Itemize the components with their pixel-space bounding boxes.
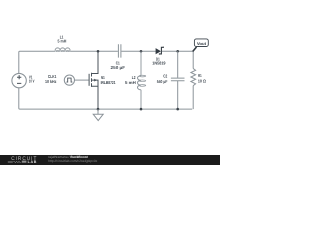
label C2	[157, 73, 168, 84]
label L1	[58, 35, 67, 44]
label V1	[29, 75, 35, 84]
footer bar	[0, 155, 220, 165]
transistor M1	[89, 51, 98, 109]
svg-text:540 µF: 540 µF	[157, 79, 168, 84]
svg-text:1N5819: 1N5819	[152, 61, 166, 66]
inductor L1	[55, 48, 70, 52]
svg-text:LAB: LAB	[28, 160, 37, 164]
capacitor C2	[171, 51, 185, 109]
clock source CLK1	[64, 75, 74, 85]
label R1	[198, 73, 206, 83]
wire top rail D1 to corner	[162, 50, 193, 52]
label L2	[125, 75, 136, 85]
node drain top	[97, 50, 100, 53]
label C1	[111, 60, 126, 70]
voltage source V1	[12, 73, 26, 87]
svg-text:10 V: 10 V	[29, 79, 35, 84]
diode D1	[156, 47, 164, 55]
flag Vout	[194, 39, 208, 47]
node C2 top	[176, 50, 179, 53]
resistor R1	[191, 51, 196, 109]
inductor L2	[138, 51, 146, 109]
svg-text:R1: R1	[198, 73, 202, 78]
svg-text:C2: C2	[163, 73, 167, 78]
svg-text:5 mH: 5 mH	[58, 39, 67, 44]
svg-text:5 mH: 5 mH	[125, 80, 136, 85]
node C2 bottom	[176, 108, 179, 111]
node L2 bottom	[140, 108, 143, 111]
wire gate lead	[75, 79, 89, 81]
node L2 top	[140, 50, 143, 53]
label D1	[152, 56, 166, 65]
svg-text:10 kHz: 10 kHz	[45, 79, 56, 84]
wire left rail bottom	[19, 88, 192, 109]
footer logo CircuitLab	[8, 156, 38, 164]
wire top rail mid	[70, 50, 118, 52]
capacitor C1	[118, 44, 121, 57]
footer title text	[48, 155, 97, 163]
label CLK1	[45, 74, 57, 84]
node source bottom	[97, 108, 100, 111]
label M1	[101, 75, 116, 85]
wire top rail C1 to D1	[121, 50, 155, 52]
wire top rail left	[19, 51, 55, 73]
svg-text:250 µF: 250 µF	[111, 65, 126, 70]
ground	[93, 109, 103, 121]
wire Vout tail	[193, 47, 197, 52]
svg-text:IRLB8721: IRLB8721	[101, 80, 116, 85]
svg-text:Vout: Vout	[197, 41, 207, 46]
svg-text:http://circuitlab.com/c2ss4jpk: http://circuitlab.com/c2ss4jpkpx0x	[48, 159, 97, 163]
svg-text:10 Ω: 10 Ω	[198, 79, 206, 84]
